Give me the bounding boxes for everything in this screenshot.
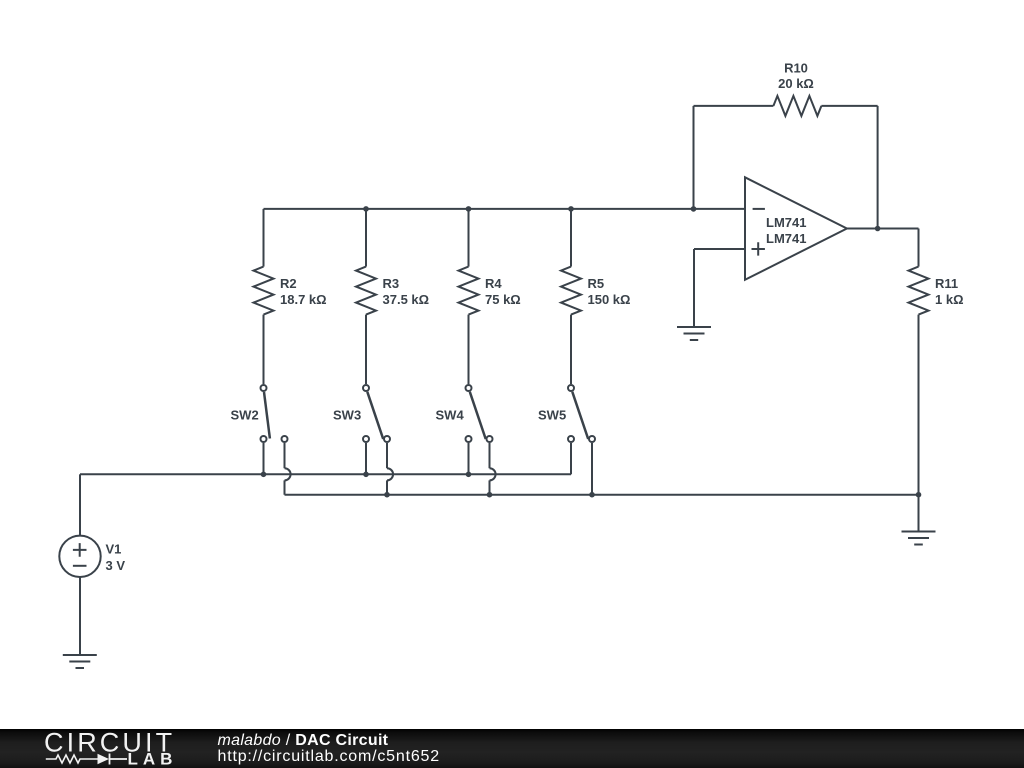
svg-text:SW5: SW5 bbox=[538, 407, 566, 422]
svg-text:75 kΩ: 75 kΩ bbox=[485, 292, 521, 307]
svg-text:LM741: LM741 bbox=[766, 231, 806, 246]
svg-text:LM741: LM741 bbox=[766, 215, 806, 230]
svg-text:R2: R2 bbox=[280, 276, 297, 291]
svg-text:LAB: LAB bbox=[128, 749, 178, 768]
svg-text:20 kΩ: 20 kΩ bbox=[778, 76, 814, 91]
svg-text:R3: R3 bbox=[383, 276, 400, 291]
svg-text:37.5 kΩ: 37.5 kΩ bbox=[383, 292, 430, 307]
svg-text:R5: R5 bbox=[588, 276, 605, 291]
svg-text:150 kΩ: 150 kΩ bbox=[588, 292, 631, 307]
svg-text:malabdo / DAC Circuit: malabdo / DAC Circuit bbox=[218, 732, 389, 749]
svg-text:18.7 kΩ: 18.7 kΩ bbox=[280, 292, 327, 307]
svg-text:1 kΩ: 1 kΩ bbox=[935, 292, 964, 307]
svg-text:SW2: SW2 bbox=[231, 407, 259, 422]
svg-text:R10: R10 bbox=[784, 61, 808, 76]
svg-text:SW4: SW4 bbox=[436, 407, 465, 422]
svg-text:V1: V1 bbox=[106, 541, 122, 556]
svg-text:3 V: 3 V bbox=[106, 558, 126, 573]
svg-text:R11: R11 bbox=[935, 276, 958, 291]
svg-text:R4: R4 bbox=[485, 276, 502, 291]
svg-text:SW3: SW3 bbox=[333, 407, 361, 422]
svg-text:http://circuitlab.com/c5nt652: http://circuitlab.com/c5nt652 bbox=[218, 748, 440, 765]
